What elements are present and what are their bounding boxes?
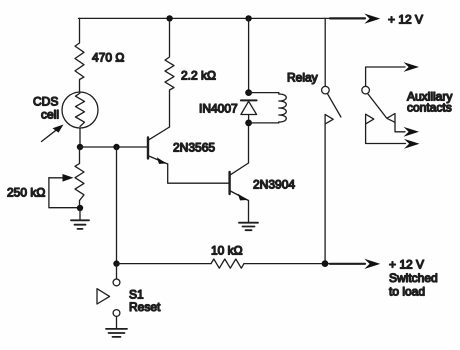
node junction base wire / reset branch: [113, 144, 119, 150]
node junction top rail / 2.2k branch: [166, 15, 172, 21]
resistor R 10k: [211, 259, 244, 268]
diode D1 IN4007 (cathode bar up): [241, 100, 257, 123]
svg-text:10 kΩ: 10 kΩ: [211, 244, 243, 258]
svg-text:Relay: Relay: [287, 71, 318, 85]
ground under S1: [106, 329, 127, 337]
wire reset branch vertical: [116, 147, 118, 264]
label 10 kohm: [211, 244, 243, 258]
label IN4007: [199, 102, 238, 116]
svg-text:+ 12 V: + 12 V: [388, 13, 423, 27]
auxiliary contacts switch: [362, 67, 406, 144]
svg-text:2N3565: 2N3565: [173, 141, 215, 155]
light arrow pointing at CDS cell: [42, 125, 64, 142]
transistor Q2 2N3904: [230, 123, 249, 223]
wire 10k row left: [117, 263, 212, 265]
resistor R 470 ohm: [75, 18, 84, 92]
label 250 kohm: [7, 186, 45, 200]
svg-text:cell: cell: [41, 108, 59, 122]
+12V feed arrowhead top right: [364, 14, 380, 24]
relay switch contact (main): [322, 18, 341, 263]
svg-text:2.2 kΩ: 2.2 kΩ: [181, 69, 216, 83]
wire top +12V rail: [79, 17, 366, 19]
node junction relay switch / switched rail: [322, 260, 329, 267]
pushbutton S1 reset: [97, 264, 120, 329]
label 2.2 kohm: [181, 69, 216, 83]
svg-text:2N3904: 2N3904: [253, 178, 295, 192]
label Relay: [287, 71, 318, 85]
svg-text:250 kΩ: 250 kΩ: [7, 186, 45, 200]
potentiometer R 250k: [49, 147, 84, 208]
ground under potentiometer: [71, 208, 89, 229]
svg-text:+ 12 V: + 12 V: [389, 258, 424, 272]
node junction reset / 10k wire: [113, 260, 119, 266]
label 2N3904: [253, 178, 295, 192]
label 470 ohm: [92, 51, 124, 65]
ground under 2N3904: [239, 223, 258, 231]
switched +12V feed arrowhead: [364, 259, 380, 269]
node junction diode top / coil top: [245, 89, 252, 96]
aux contact arrowhead middle: [404, 127, 420, 137]
aux contact arrowhead bottom: [404, 139, 420, 149]
node junction top rail / diode-relay branch: [245, 15, 251, 21]
svg-text:IN4007: IN4007: [199, 102, 238, 116]
label S1 Reset: [129, 288, 161, 315]
relay coil K1: [249, 93, 287, 123]
label + 12 V Switched to load: [389, 258, 438, 299]
node junction CDS / base wire: [77, 144, 83, 150]
wire diode branch from top rail: [248, 18, 250, 92]
svg-text:Switched: Switched: [389, 271, 438, 285]
node junction pot wiper / ground: [77, 205, 83, 211]
wire base feed to 2N3565: [80, 146, 147, 148]
resistor R 2.2k: [165, 18, 174, 127]
transistor Q1 2N3565: [148, 127, 228, 183]
svg-text:contacts: contacts: [407, 101, 452, 115]
label 2N3565: [173, 141, 215, 155]
photocell CDS cell (circle with internal zigzag): [62, 92, 98, 147]
aux feed arrowhead top: [404, 62, 420, 72]
label + 12 V (top right): [388, 13, 423, 27]
label Auxillary contacts: [407, 90, 452, 115]
node junction diode bottom / coil bottom: [245, 120, 252, 127]
svg-text:CDS: CDS: [33, 95, 58, 109]
svg-text:to load: to load: [389, 285, 425, 299]
svg-text:Reset: Reset: [129, 300, 161, 314]
label CDS cell: [33, 95, 59, 122]
wire 10k row right: [244, 263, 365, 265]
svg-text:470 Ω: 470 Ω: [92, 51, 124, 65]
